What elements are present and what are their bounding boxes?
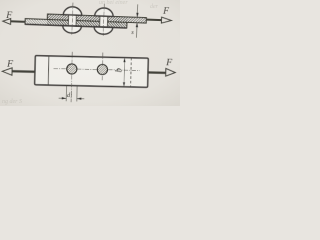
light wash on upper plate right tail — [128, 18, 146, 23]
rivet 2 shank — [100, 16, 108, 27]
dimension b arrowhead up — [123, 58, 125, 63]
left force arrow shaft (section) — [11, 20, 25, 23]
rivet 1 centerline — [72, 3, 73, 35]
hole 2 vertical centerline — [101, 52, 104, 81]
light wash on lower plate left tail — [26, 19, 47, 24]
lower plate (section view), hatched — [25, 19, 127, 28]
paper background — [0, 0, 180, 106]
right force arrow shaft (section) — [146, 19, 162, 22]
lap edge (plan view) — [47, 56, 50, 85]
lower plate bottom edge (heavy) — [25, 24, 127, 28]
rivet 2 top head — [95, 8, 114, 17]
left force arrowhead (plan) — [2, 68, 12, 76]
hole 2 (rivet section, hatched) — [97, 64, 107, 74]
dimension d1 left leader — [59, 97, 67, 99]
dimension s arrowhead down — [136, 13, 138, 18]
rivet 2 centerline — [103, 4, 104, 36]
dimension s extension line below — [136, 23, 139, 38]
dimension d1 right leader — [77, 98, 84, 100]
left force arrowhead (section) — [3, 18, 11, 24]
hole 1 (rivet section, hatched) — [67, 64, 77, 74]
dimension s arrowhead up — [136, 23, 138, 28]
horizontal centerline (plan) — [54, 69, 140, 71]
right force arrowhead (plan) — [166, 69, 176, 77]
rivet 1 shank — [68, 15, 76, 26]
left force arrow shaft (plan) — [12, 70, 35, 73]
subtle paper noise — [0, 0, 180, 106]
dimension d1 left arrowhead — [62, 97, 67, 99]
dimension d1 left extension line — [65, 86, 67, 102]
dimension d1 right arrowhead — [77, 97, 82, 99]
vignette — [0, 0, 180, 106]
right force arrowhead (section) — [161, 17, 171, 23]
dimension s extension line above — [136, 4, 138, 17]
hole 1 vertical centerline — [71, 52, 72, 102]
right force arrow shaft (plan) — [148, 71, 166, 74]
rivet 1 top head — [63, 7, 82, 16]
rivet 2 bottom head — [94, 27, 113, 35]
faint bleed-through text — [2, 0, 159, 105]
upper plate (section view), hatched — [47, 14, 146, 23]
plate outline (plan view) — [35, 56, 149, 88]
rivet 1 bottom head — [63, 26, 82, 34]
dimension d1 right extension line — [76, 86, 78, 102]
dimension b arrowhead down — [123, 82, 125, 87]
hidden plate end (dashed) — [130, 58, 133, 87]
dimension b line — [123, 58, 126, 87]
